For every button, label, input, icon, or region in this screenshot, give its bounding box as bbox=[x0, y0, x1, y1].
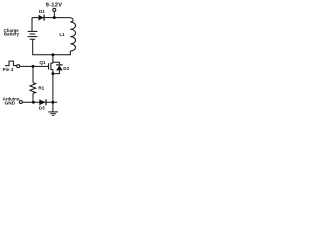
battery (Charge Battery) bbox=[28, 31, 38, 39]
wire gate bbox=[20, 65, 49, 67]
wire terminal to top rail bbox=[53, 11, 55, 17]
ground rail wire bbox=[22, 101, 57, 103]
wire battery top bbox=[31, 18, 33, 31]
ground symbol bbox=[48, 102, 58, 115]
svg-text:L1: L1 bbox=[59, 32, 65, 37]
pulse symbol Pin 3 bbox=[5, 61, 16, 66]
supply terminal circle bbox=[53, 8, 56, 11]
wire switch node to L1 bottom bbox=[53, 51, 70, 55]
svg-text:D3: D3 bbox=[39, 106, 45, 111]
wire source bbox=[52, 70, 54, 74]
node junction switch bbox=[51, 53, 54, 56]
wire battery bottom to switch node bbox=[33, 39, 53, 55]
terminal circle Arduino GND bbox=[19, 101, 22, 104]
inductor L1 bbox=[70, 18, 76, 51]
node junction gate/R1 bbox=[32, 65, 35, 68]
node junction ground bbox=[51, 101, 54, 104]
svg-text:R1: R1 bbox=[38, 85, 44, 90]
top rail wire bbox=[32, 17, 70, 19]
node junction source bbox=[51, 72, 54, 75]
transistor Q1 bbox=[39, 60, 52, 70]
node junction top bbox=[53, 16, 56, 19]
diode D3 bbox=[39, 99, 46, 110]
svg-text:Q1: Q1 bbox=[39, 60, 46, 65]
svg-text:Pin 3: Pin 3 bbox=[3, 67, 14, 72]
diode D1 bbox=[39, 9, 46, 21]
svg-text:GND: GND bbox=[5, 100, 16, 105]
resistor R1 bbox=[30, 66, 45, 102]
wire drain bbox=[52, 55, 54, 63]
wire source node to ground rail bbox=[52, 74, 54, 103]
svg-text:D2: D2 bbox=[63, 66, 69, 71]
svg-text:D1: D1 bbox=[39, 9, 45, 14]
svg-text:9-12V: 9-12V bbox=[46, 2, 63, 8]
diode D2 bbox=[53, 62, 70, 73]
node junction R1/ground rail bbox=[32, 101, 35, 104]
svg-text:Battery: Battery bbox=[4, 32, 20, 37]
terminal circle Pin 3 bbox=[17, 65, 20, 68]
